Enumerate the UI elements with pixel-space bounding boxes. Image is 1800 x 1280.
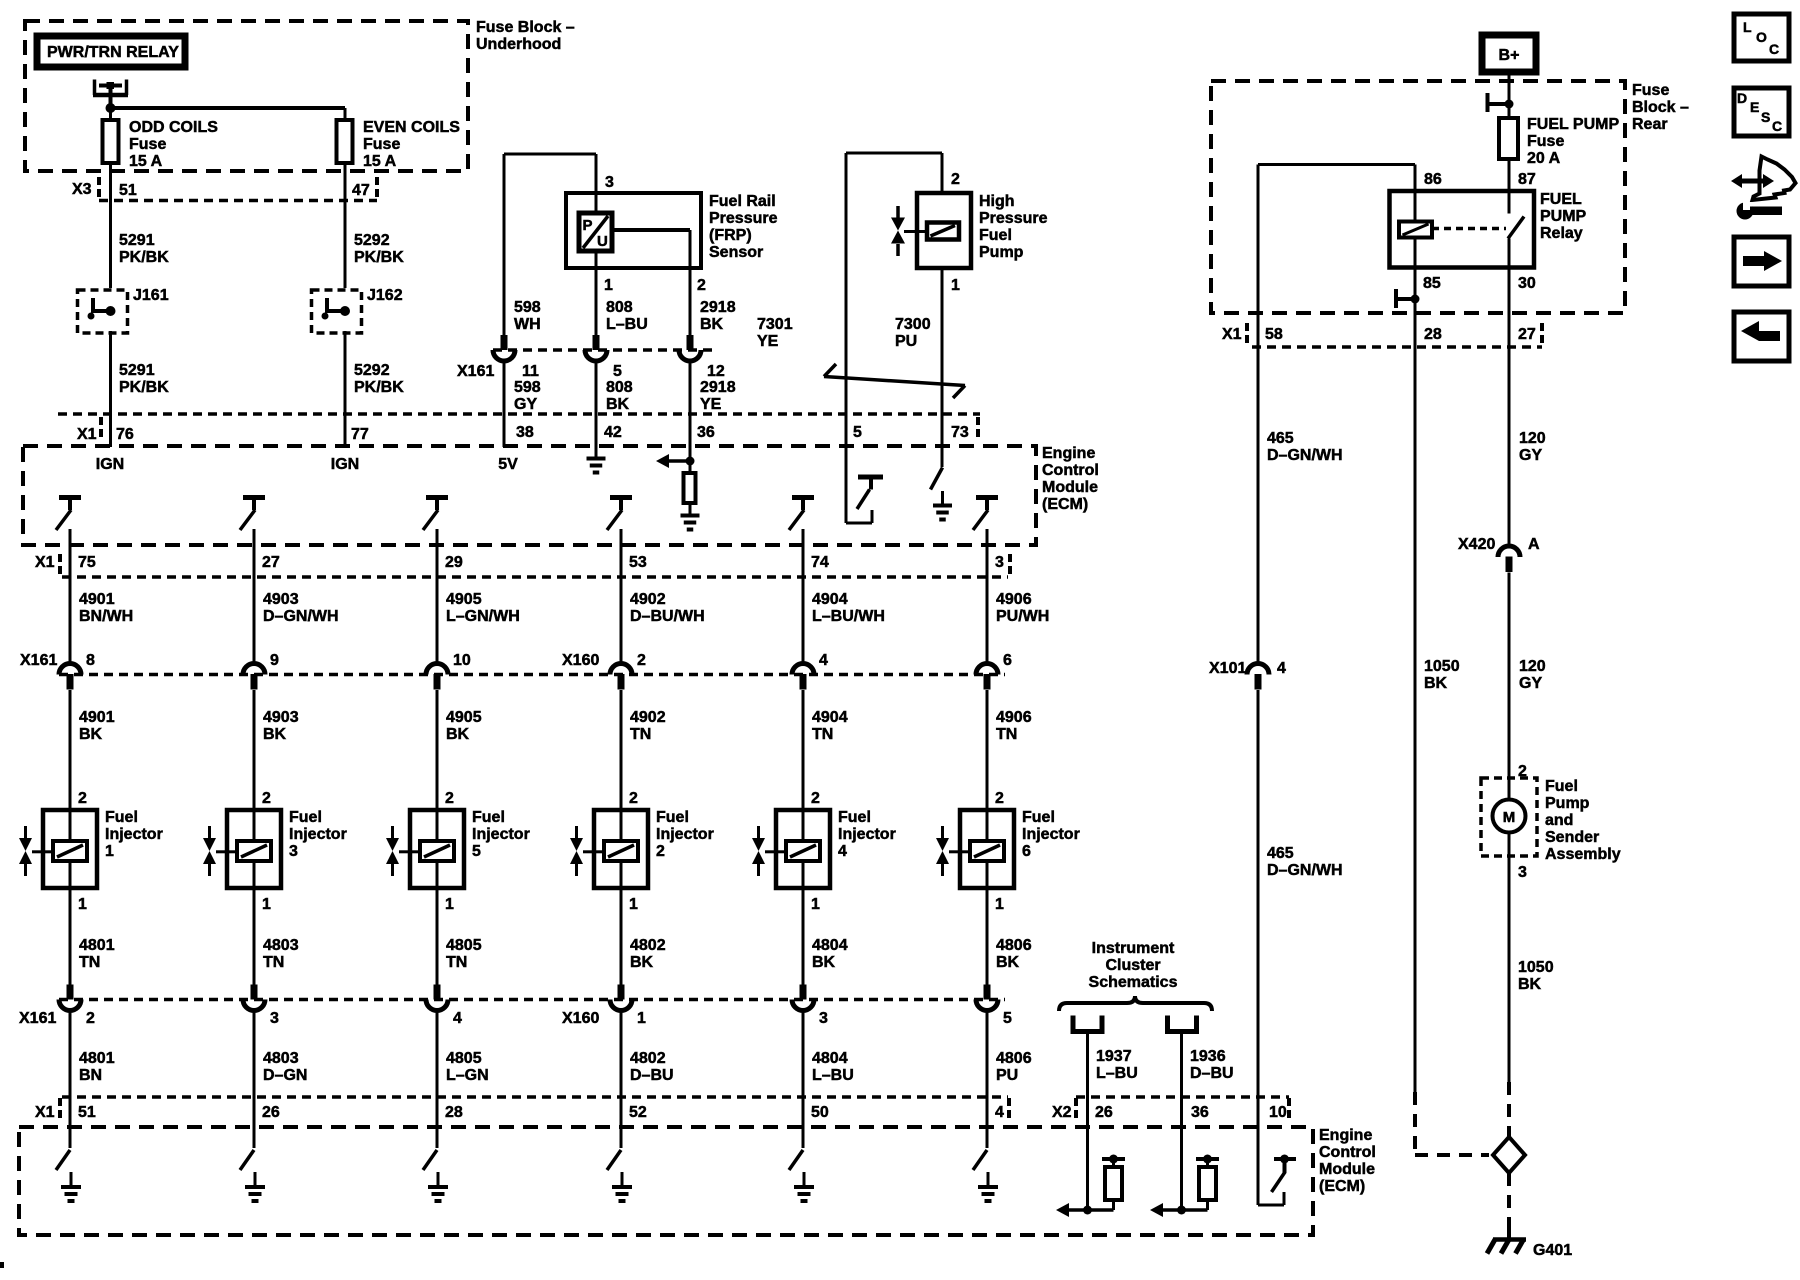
svg-text:Fuel: Fuel: [472, 809, 505, 826]
svg-text:P: P: [583, 217, 593, 234]
svg-text:4802: 4802: [630, 1050, 666, 1067]
svg-text:808: 808: [606, 379, 633, 396]
ECM internal switch to ground (pin 52): [607, 1150, 621, 1170]
ECM internal switch to ground (pin 28): [423, 1150, 437, 1170]
wire 465 D-GN/WH lower to ECM X2 pin 10: [1257, 690, 1260, 1097]
svg-text:BK: BK: [630, 954, 654, 971]
wire 5291 PK/BK upper segment: [109, 200, 112, 288]
svg-text:Fuel: Fuel: [1022, 809, 1055, 826]
connector terminal X16x pin 9 (upper): [243, 664, 265, 675]
wire 4905 BK to injector 5: [436, 690, 439, 810]
wire 4802 D–BU to ECM: [620, 1010, 623, 1148]
svg-text:3: 3: [995, 554, 1004, 571]
relay contact blade: [1508, 217, 1524, 239]
svg-text:GY: GY: [1519, 447, 1542, 464]
svg-text:BK: BK: [996, 954, 1020, 971]
svg-text:Sender: Sender: [1545, 829, 1599, 846]
svg-text:58: 58: [1265, 326, 1283, 343]
svg-text:5: 5: [853, 424, 862, 441]
svg-text:4804: 4804: [812, 937, 848, 954]
svg-text:4901: 4901: [79, 591, 115, 608]
svg-text:A: A: [1528, 536, 1540, 553]
svg-text:29: 29: [445, 554, 463, 571]
battery feed B+: [1482, 35, 1536, 72]
wire 4806 BK from injector 6 pin 1: [986, 888, 989, 985]
fuel pump relay box: [1390, 191, 1535, 268]
svg-text:5291: 5291: [119, 362, 155, 379]
svg-text:PK/BK: PK/BK: [354, 249, 404, 266]
svg-text:PU: PU: [996, 1067, 1018, 1084]
pin 42 internal ground: [595, 414, 598, 457]
wire ECM pin 74 to X161/X160: [802, 529, 805, 664]
brace: [1059, 996, 1212, 1011]
wire 808 BK to ECM pin 42: [595, 361, 598, 446]
svg-text:74: 74: [811, 554, 829, 571]
svg-text:TN: TN: [263, 954, 284, 971]
svg-text:Injector: Injector: [656, 826, 714, 843]
svg-text:9: 9: [270, 652, 279, 669]
wire 1050 BK from relay 85/X1-28: [1414, 347, 1417, 1092]
svg-text:4805: 4805: [446, 937, 482, 954]
svg-text:4806: 4806: [996, 937, 1032, 954]
pin 5 internal driver: [845, 414, 848, 523]
svg-text:X420: X420: [1458, 536, 1495, 553]
svg-text:X1: X1: [1222, 326, 1242, 343]
svg-text:2918: 2918: [700, 299, 736, 316]
svg-text:6: 6: [1003, 652, 1012, 669]
wire diamond to G401: [1507, 1173, 1511, 1234]
connector terminal X16x pin 2 (lower): [59, 1000, 81, 1011]
svg-text:TN: TN: [79, 954, 100, 971]
svg-text:D–BU/WH: D–BU/WH: [630, 608, 705, 625]
wire 4906 TN to injector 6: [986, 690, 989, 810]
fuse EVEN COILS 15 A: [337, 120, 353, 163]
svg-text:WH: WH: [514, 316, 541, 333]
svg-text:L–BU/WH: L–BU/WH: [812, 608, 885, 625]
svg-text:Fuel Rail: Fuel Rail: [709, 193, 776, 210]
svg-text:75: 75: [78, 554, 96, 571]
relay coil-contact link: [1432, 227, 1506, 231]
svg-text:4903: 4903: [263, 709, 299, 726]
svg-text:Relay: Relay: [1540, 225, 1583, 242]
svg-text:TN: TN: [446, 954, 467, 971]
svg-text:1: 1: [811, 896, 820, 913]
wire: bus from junction to EVEN COILS fuse: [111, 106, 346, 110]
svg-text:Pressure: Pressure: [709, 210, 778, 227]
injector 6 valve symbol: [941, 826, 944, 838]
svg-text:G401: G401: [1533, 1242, 1572, 1259]
svg-text:5: 5: [613, 363, 622, 380]
svg-text:O: O: [1756, 29, 1767, 45]
svg-text:3: 3: [289, 843, 298, 860]
svg-text:Assembly: Assembly: [1545, 846, 1621, 863]
svg-text:Injector: Injector: [838, 826, 896, 843]
svg-text:2: 2: [697, 277, 706, 294]
svg-text:1: 1: [105, 843, 114, 860]
svg-text:PK/BK: PK/BK: [119, 379, 169, 396]
svg-text:808: 808: [606, 299, 633, 316]
svg-text:2: 2: [629, 790, 638, 807]
svg-text:1: 1: [637, 1010, 646, 1027]
connector terminal X16x pin 4 (upper): [792, 664, 814, 675]
svg-text:11: 11: [522, 363, 539, 380]
wire IGN pin 77 into ECM: [344, 414, 347, 447]
svg-text:2: 2: [656, 843, 665, 860]
svg-text:28: 28: [445, 1104, 463, 1121]
svg-text:Fuel: Fuel: [289, 809, 322, 826]
svg-text:and: and: [1545, 812, 1573, 829]
svg-text:Sensor: Sensor: [709, 244, 763, 261]
svg-text:28: 28: [1424, 326, 1442, 343]
svg-text:1050: 1050: [1424, 658, 1460, 675]
svg-text:27: 27: [262, 554, 280, 571]
connector terminal X16x pin 4 (lower): [426, 1000, 448, 1011]
svg-text:86: 86: [1424, 171, 1442, 188]
wire ECM pin 27 to X161/X160: [253, 529, 256, 664]
wire 4805 L–GN to ECM: [436, 1010, 439, 1148]
wire 1050 BK dashed to ground splice: [1413, 1092, 1417, 1155]
FRP internal wire pin3 to P/U: [595, 193, 598, 213]
svg-text:Fuse: Fuse: [129, 136, 166, 153]
svg-text:2918: 2918: [700, 379, 736, 396]
wire pin 58 to X1: [1257, 165, 1260, 348]
svg-text:J162: J162: [367, 287, 403, 304]
wire 4804 L–BU to ECM: [802, 1010, 805, 1148]
svg-text:L–BU: L–BU: [1096, 1065, 1138, 1082]
ECM driver for injector 6: [976, 495, 998, 500]
svg-text:BK: BK: [446, 726, 470, 743]
svg-text:X1: X1: [35, 554, 55, 571]
engine control module ECM bottom box: [19, 1127, 1313, 1235]
fuse cavity clip: [1486, 93, 1490, 112]
svg-text:4804: 4804: [812, 1050, 848, 1067]
svg-text:4905: 4905: [446, 709, 482, 726]
svg-text:2: 2: [86, 1010, 95, 1027]
svg-text:38: 38: [516, 424, 534, 441]
wire 465 D-GN/WH upper: [1257, 347, 1260, 664]
svg-text:Rear: Rear: [1632, 116, 1668, 133]
connector terminal X16x pin 1 (lower): [610, 1000, 632, 1011]
icon LOC: [1734, 14, 1789, 61]
svg-text:GY: GY: [514, 396, 537, 413]
svg-text:Fuse: Fuse: [1527, 133, 1564, 150]
svg-text:4803: 4803: [263, 1050, 299, 1067]
svg-text:BK: BK: [700, 316, 724, 333]
svg-text:465: 465: [1267, 845, 1294, 862]
ECM driver for injector 5: [426, 495, 448, 500]
svg-text:Cluster: Cluster: [1105, 957, 1160, 974]
svg-text:2: 2: [811, 790, 820, 807]
ECM driver for injector 2: [610, 495, 632, 500]
wire: ODD fuse to X3 pin 51: [109, 163, 112, 200]
svg-text:E: E: [1750, 99, 1759, 115]
svg-text:IGN: IGN: [96, 456, 124, 473]
svg-text:Control: Control: [1042, 462, 1099, 479]
svg-text:1: 1: [445, 896, 454, 913]
connector terminal X16x pin 6 (upper): [976, 664, 998, 675]
ECM driver for injector 3: [243, 495, 265, 500]
svg-text:4902: 4902: [630, 591, 666, 608]
svg-text:FUEL PUMP: FUEL PUMP: [1527, 116, 1619, 133]
wire 4902 TN to injector 2: [620, 690, 623, 810]
fuse FUEL PUMP 20 A: [1499, 118, 1518, 159]
svg-text:7301: 7301: [757, 316, 793, 333]
svg-text:D–BU: D–BU: [1190, 1065, 1234, 1082]
svg-text:1937: 1937: [1096, 1048, 1132, 1065]
svg-text:4903: 4903: [263, 591, 299, 608]
splice J161: [78, 290, 128, 333]
wire 4803 TN from injector 3 pin 1: [253, 888, 256, 985]
wire 4803 D–GN to ECM: [253, 1010, 256, 1148]
svg-text:10: 10: [1269, 1104, 1287, 1121]
svg-text:1: 1: [78, 896, 87, 913]
svg-text:85: 85: [1423, 275, 1441, 292]
svg-text:D: D: [1737, 90, 1747, 106]
svg-text:5: 5: [1003, 1010, 1012, 1027]
svg-text:High: High: [979, 193, 1015, 210]
svg-text:J161: J161: [133, 287, 169, 304]
ECM internal resistor (pin 26): [1086, 1097, 1089, 1210]
svg-text:TN: TN: [812, 726, 833, 743]
high pressure fuel pump: [917, 193, 971, 268]
svg-text:5: 5: [472, 843, 481, 860]
ECM driver for injector 4: [792, 495, 814, 500]
svg-text:4: 4: [838, 843, 847, 860]
svg-text:D–GN: D–GN: [263, 1067, 307, 1084]
svg-text:L–BU: L–BU: [812, 1067, 854, 1084]
svg-text:L–BU: L–BU: [606, 316, 648, 333]
ECM internal switch to ground (pin 4): [973, 1150, 987, 1170]
page artifact mark: [0, 1262, 4, 1268]
svg-text:15 A: 15 A: [363, 153, 397, 170]
svg-text:X161: X161: [20, 652, 57, 669]
wire 4801 BN to ECM: [69, 1010, 72, 1148]
svg-text:1: 1: [951, 277, 960, 294]
svg-text:4802: 4802: [630, 937, 666, 954]
svg-text:Pressure: Pressure: [979, 210, 1048, 227]
svg-text:BK: BK: [1518, 976, 1542, 993]
svg-text:BK: BK: [1424, 675, 1448, 692]
svg-text:120: 120: [1519, 430, 1546, 447]
svg-text:X101: X101: [1209, 660, 1246, 677]
svg-text:PK/BK: PK/BK: [119, 249, 169, 266]
svg-text:X1: X1: [77, 426, 97, 443]
svg-text:3: 3: [605, 174, 614, 191]
svg-text:4906: 4906: [996, 709, 1032, 726]
svg-text:598: 598: [514, 379, 541, 396]
svg-text:36: 36: [697, 424, 715, 441]
instrument cluster connector 2: [1168, 1016, 1197, 1032]
wire 4904 TN to injector 4: [802, 690, 805, 810]
svg-text:Fuel: Fuel: [1545, 778, 1578, 795]
fuse block - underhood (dashed box): [25, 21, 468, 171]
svg-text:X3: X3: [72, 181, 92, 198]
svg-text:X161: X161: [457, 363, 494, 380]
svg-text:PU: PU: [895, 333, 917, 350]
relay contact cavity symbol: [93, 80, 97, 96]
injector 4 valve symbol: [757, 826, 760, 838]
svg-text:Fuel: Fuel: [979, 227, 1012, 244]
svg-text:X160: X160: [562, 1010, 599, 1027]
svg-text:C: C: [1769, 41, 1779, 57]
svg-text:120: 120: [1519, 658, 1546, 675]
fuel pump motor: [1493, 800, 1526, 833]
wire: EVEN fuse to X3 pin 47: [344, 163, 347, 200]
wire 2918 YE to ECM pin 36: [689, 361, 692, 446]
svg-text:73: 73: [951, 424, 969, 441]
svg-text:D–GN/WH: D–GN/WH: [1267, 447, 1343, 464]
svg-text:2: 2: [995, 790, 1004, 807]
svg-text:4: 4: [819, 652, 828, 669]
svg-text:Pump: Pump: [1545, 795, 1590, 812]
svg-text:BK: BK: [606, 396, 630, 413]
ECM internal switch to ground (pin 51): [56, 1150, 70, 1170]
wire 1937 L-BU: [1086, 1030, 1089, 1097]
svg-text:3: 3: [270, 1010, 279, 1027]
connector terminal X16x pin 10 (upper): [426, 664, 448, 675]
svg-text:5291: 5291: [119, 232, 155, 249]
svg-text:PUMP: PUMP: [1540, 208, 1587, 225]
wire B+ to fuel pump fuse: [1508, 72, 1511, 118]
svg-text:X1: X1: [35, 1104, 55, 1121]
svg-text:Injector: Injector: [1022, 826, 1080, 843]
svg-text:7300: 7300: [895, 316, 931, 333]
svg-text:D–GN/WH: D–GN/WH: [263, 608, 339, 625]
wire 4801 TN from injector 1 pin 1: [69, 888, 72, 985]
svg-text:(FRP): (FRP): [709, 227, 752, 244]
svg-text:1: 1: [995, 896, 1004, 913]
svg-text:4801: 4801: [79, 937, 115, 954]
svg-text:YE: YE: [757, 333, 779, 350]
svg-text:L: L: [1743, 19, 1752, 35]
svg-text:1: 1: [604, 277, 613, 294]
svg-text:Underhood: Underhood: [476, 36, 561, 53]
pin 36 internal: arrow, resistor, ground: [689, 414, 692, 473]
svg-text:Module: Module: [1042, 479, 1098, 496]
svg-text:L–GN/WH: L–GN/WH: [446, 608, 520, 625]
connector terminal X16x pin 3 (lower): [792, 1000, 814, 1011]
svg-text:4: 4: [1277, 660, 1286, 677]
svg-text:Injector: Injector: [105, 826, 163, 843]
off-page crossover arrow: [824, 377, 965, 386]
svg-text:EVEN COILS: EVEN COILS: [363, 119, 460, 136]
svg-text:2: 2: [78, 790, 87, 807]
icon DESC: [1734, 88, 1789, 136]
svg-text:X160: X160: [562, 652, 599, 669]
injector 5 valve symbol: [391, 826, 394, 838]
svg-text:X2: X2: [1052, 1104, 1072, 1121]
svg-text:4: 4: [995, 1104, 1004, 1121]
wire ECM pin 75 to X161/X160: [69, 529, 72, 664]
svg-text:ODD COILS: ODD COILS: [129, 119, 218, 136]
wire 120 GY upper: [1508, 347, 1511, 546]
svg-text:Injector: Injector: [472, 826, 530, 843]
svg-text:4805: 4805: [446, 1050, 482, 1067]
wire 4805 TN from injector 5 pin 1: [436, 888, 439, 985]
svg-text:10: 10: [453, 652, 471, 669]
svg-text:Fuse: Fuse: [363, 136, 400, 153]
svg-text:U: U: [597, 233, 608, 250]
fuse block - rear (dashed box): [1211, 81, 1625, 313]
wire 4802 BK from injector 2 pin 1: [620, 888, 623, 985]
svg-text:6: 6: [1022, 843, 1031, 860]
ECM internal switch to ground (pin 26): [240, 1150, 254, 1170]
wire 4806 PU to ECM: [986, 1010, 989, 1148]
svg-text:47: 47: [352, 182, 370, 199]
svg-text:Fuse: Fuse: [1632, 82, 1669, 99]
wire pin 38 to 5V: [503, 414, 506, 447]
wire 4804 BK from injector 4 pin 1: [802, 888, 805, 985]
svg-text:51: 51: [78, 1104, 96, 1121]
FRP transducer P/U element: [579, 213, 612, 251]
ECM internal resistor (pin 36): [1180, 1097, 1183, 1210]
svg-text:2: 2: [262, 790, 271, 807]
svg-text:Injector: Injector: [289, 826, 347, 843]
svg-text:1936: 1936: [1190, 1048, 1226, 1065]
svg-text:4906: 4906: [996, 591, 1032, 608]
svg-text:BK: BK: [79, 726, 103, 743]
svg-text:D–GN/WH: D–GN/WH: [1267, 862, 1343, 879]
svg-text:Pump: Pump: [979, 244, 1024, 261]
svg-text:Fuel: Fuel: [105, 809, 138, 826]
svg-text:YE: YE: [700, 396, 722, 413]
wire 4901 BK to injector 1: [69, 690, 72, 810]
injector 1 valve symbol: [24, 826, 27, 838]
svg-text:465: 465: [1267, 430, 1294, 447]
svg-text:2: 2: [951, 171, 960, 188]
ECM internal switch to ground (pin 50): [789, 1150, 803, 1170]
svg-text:Fuel: Fuel: [656, 809, 689, 826]
svg-text:4904: 4904: [812, 709, 848, 726]
svg-text:(ECM): (ECM): [1319, 1178, 1365, 1195]
svg-text:87: 87: [1518, 171, 1536, 188]
svg-text:Schematics: Schematics: [1089, 974, 1178, 991]
svg-text:26: 26: [1095, 1104, 1113, 1121]
svg-text:2: 2: [445, 790, 454, 807]
injector 3 valve symbol: [208, 826, 211, 838]
svg-text:5292: 5292: [354, 362, 390, 379]
svg-text:3: 3: [1518, 864, 1527, 881]
injector 2 valve symbol: [575, 826, 578, 838]
pin 85 clip: [1394, 289, 1398, 308]
svg-text:15 A: 15 A: [129, 153, 163, 170]
wire 5291 PK/BK lower segment: [109, 331, 112, 414]
svg-text:Control: Control: [1319, 1144, 1376, 1161]
svg-text:4904: 4904: [812, 591, 848, 608]
svg-text:Engine: Engine: [1042, 445, 1095, 462]
svg-text:30: 30: [1518, 275, 1536, 292]
svg-text:598: 598: [514, 299, 541, 316]
svg-text:Fuel: Fuel: [838, 809, 871, 826]
svg-text:36: 36: [1191, 1104, 1209, 1121]
pump solenoid coil: [927, 223, 959, 240]
wire 120 GY lower to fuel pump: [1508, 573, 1511, 800]
svg-text:IGN: IGN: [331, 456, 359, 473]
icon hand with arrows and wrench: [1753, 157, 1796, 201]
pump valve symbol: [896, 206, 900, 218]
svg-text:X161: X161: [19, 1010, 56, 1027]
svg-text:D–BU: D–BU: [630, 1067, 674, 1084]
svg-text:FUEL: FUEL: [1540, 191, 1582, 208]
ground splice diamond: [1493, 1137, 1525, 1173]
svg-text:12: 12: [707, 363, 725, 380]
svg-text:1: 1: [629, 896, 638, 913]
svg-text:GY: GY: [1519, 675, 1542, 692]
wire IGN pin 76 into ECM: [109, 414, 112, 447]
svg-text:4901: 4901: [79, 709, 115, 726]
ECM internal switch (pin 10): [1257, 1097, 1260, 1205]
svg-text:42: 42: [604, 424, 622, 441]
